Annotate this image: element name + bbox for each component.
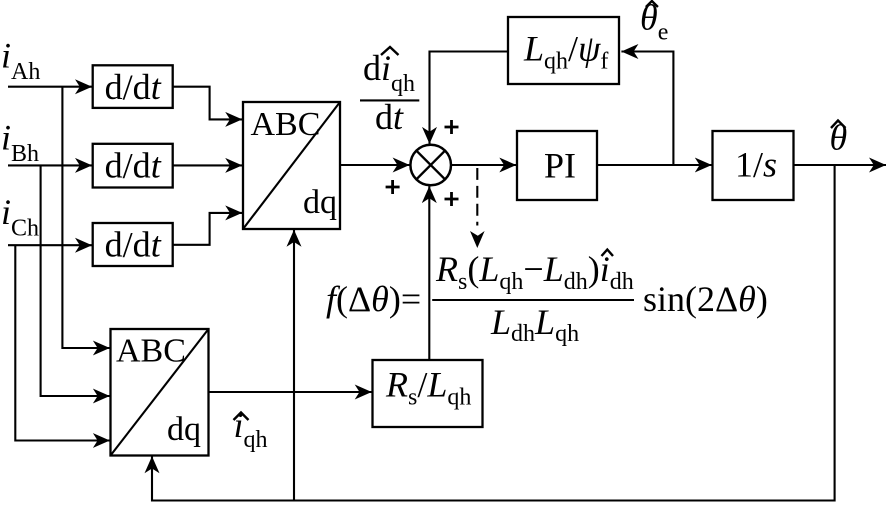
wire PI to 1/s (597, 164, 712, 166)
equation fraction bar (432, 299, 634, 301)
block d/dt 2 (93, 144, 173, 188)
svg-text:d/dt: d/dt (105, 225, 162, 265)
block d/dt 3 (93, 223, 173, 266)
hat over i_qh (234, 413, 249, 421)
svg-text:ABC: ABC (251, 106, 321, 143)
wire feedback branch up to ABC1 bottom (293, 230, 295, 501)
plus sign top input (445, 120, 459, 134)
svg-text:ABC: ABC (116, 333, 186, 370)
wire tap iAh to ABC2 input1 (62, 87, 109, 348)
hat over i_dh in numerator (602, 250, 614, 257)
wire ABC1 output to summing junction (340, 164, 410, 166)
wire d/dt3 to ABC1 input3 (173, 213, 243, 245)
svg-text:PI: PI (544, 146, 576, 186)
summing junction X cross (416, 151, 445, 180)
wire feedback right down and bottom to ABC2 (152, 165, 835, 501)
plus sign bottom input (445, 192, 459, 206)
svg-text:d/dt: d/dt (105, 146, 162, 186)
summing junction circle (410, 145, 451, 186)
wire iBh input (8, 164, 92, 166)
svg-text:sin(2Δθ): sin(2Δθ) (643, 279, 768, 319)
wire iCh input (8, 244, 92, 246)
wire d/dt1 to ABC1 input1 (173, 87, 243, 120)
wire tap iBh to ABC2 input2 (41, 165, 110, 396)
block ABC/dq 2 (111, 329, 209, 456)
svg-text:1/s: 1/s (735, 145, 777, 185)
wire 1/s to output (794, 164, 887, 166)
svg-text:θ: θ (830, 118, 848, 158)
block d/dt 1 (93, 65, 173, 108)
wire summing junction to PI (451, 164, 516, 166)
wire Rs/Lqh output up to summing junction bottom (428, 186, 430, 360)
wire d/dt2 to ABC1 input2 (173, 164, 243, 166)
block ABC/dq 1 (243, 102, 340, 229)
wire tap iCh to ABC2 input3 (15, 245, 110, 440)
svg-text:dq: dq (303, 184, 337, 221)
dashed wire down to f equation (476, 168, 478, 226)
wire Lqh/psi output to summing junction top (430, 52, 509, 144)
dashed wire arrowhead (470, 231, 485, 248)
fraction bar of d i_qh / dt (360, 99, 419, 101)
block PI (517, 131, 597, 200)
svg-text:d/dt: d/dt (105, 67, 162, 107)
svg-text:dq: dq (167, 411, 201, 448)
hat over theta_e (646, 1, 658, 7)
plus sign left input (386, 180, 400, 194)
hat over theta (831, 121, 846, 129)
wire ABC2 output to Rs/Lqh (209, 391, 372, 393)
wire iAh input (8, 86, 92, 88)
block Rs/Lqh (373, 360, 483, 427)
svg-text:dt: dt (375, 97, 404, 137)
wire branch up to Lqh/psi block (621, 52, 673, 166)
block 1/s (713, 131, 794, 200)
block Lqh/psi_f (508, 17, 619, 84)
svg-text:f(Δθ)=: f(Δθ)= (326, 279, 421, 319)
hat over i in d i_qh (381, 47, 399, 55)
